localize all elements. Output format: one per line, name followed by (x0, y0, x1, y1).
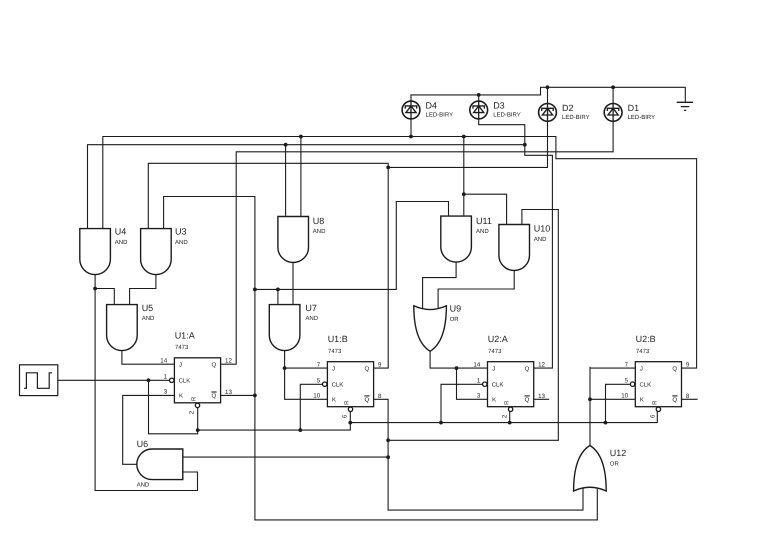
svg-text:LED-BIRY: LED-BIRY (562, 114, 590, 121)
svg-text:7473: 7473 (328, 348, 342, 355)
svg-text:U11: U11 (476, 216, 492, 226)
svg-text:7: 7 (317, 361, 321, 368)
svg-text:K: K (179, 393, 183, 400)
svg-text:AND: AND (142, 315, 155, 322)
svg-text:9: 9 (378, 362, 382, 369)
svg-text:2: 2 (502, 414, 509, 418)
svg-text:U3: U3 (175, 227, 187, 237)
svg-text:AND: AND (137, 481, 150, 488)
svg-text:U12: U12 (610, 448, 627, 458)
svg-text:12: 12 (225, 358, 232, 365)
svg-text:OR: OR (610, 461, 620, 468)
svg-text:OR: OR (450, 316, 460, 323)
svg-text:U10: U10 (534, 224, 551, 234)
svg-text:10: 10 (621, 393, 628, 400)
svg-text:K: K (640, 397, 644, 404)
svg-text:J: J (179, 362, 182, 369)
svg-text:5: 5 (625, 378, 629, 385)
svg-text:14: 14 (160, 357, 167, 364)
svg-text:3: 3 (477, 393, 481, 400)
svg-text:U9: U9 (450, 304, 462, 314)
svg-text:D4: D4 (426, 101, 438, 111)
svg-text:Q: Q (672, 365, 677, 372)
svg-text:R: R (191, 396, 198, 401)
svg-text:14: 14 (473, 361, 480, 368)
svg-text:K: K (492, 397, 496, 404)
svg-text:U7: U7 (305, 303, 317, 313)
svg-text:LED-BIRY: LED-BIRY (493, 112, 521, 119)
svg-text:7473: 7473 (175, 344, 189, 351)
svg-text:R: R (344, 400, 351, 405)
svg-text:AND: AND (313, 228, 326, 235)
svg-text:12: 12 (538, 362, 545, 369)
svg-text:Q: Q (212, 362, 217, 369)
svg-text:9: 9 (686, 362, 690, 369)
svg-text:13: 13 (225, 389, 232, 396)
svg-text:Q: Q (525, 365, 530, 372)
svg-text:Q: Q (212, 393, 217, 400)
svg-text:U1:B: U1:B (328, 334, 348, 344)
svg-text:U2:B: U2:B (636, 334, 656, 344)
svg-text:10: 10 (313, 393, 320, 400)
svg-text:5: 5 (317, 378, 321, 385)
svg-text:CLK: CLK (640, 382, 652, 389)
svg-text:AND: AND (115, 239, 128, 246)
svg-text:AND: AND (175, 239, 188, 246)
svg-text:1: 1 (477, 378, 481, 385)
svg-text:U6: U6 (137, 439, 149, 449)
svg-text:Q: Q (365, 365, 370, 372)
svg-text:K: K (332, 397, 336, 404)
svg-text:3: 3 (164, 389, 168, 396)
svg-text:D2: D2 (562, 103, 574, 113)
svg-text:AND: AND (534, 236, 547, 243)
svg-text:AND: AND (305, 315, 318, 322)
svg-text:J: J (332, 365, 335, 372)
svg-text:7473: 7473 (488, 348, 502, 355)
svg-text:U5: U5 (142, 303, 154, 313)
svg-text:Q: Q (672, 397, 677, 404)
svg-text:Q: Q (525, 397, 530, 404)
svg-text:7473: 7473 (636, 348, 650, 355)
svg-text:8: 8 (378, 393, 382, 400)
svg-text:U1:A: U1:A (175, 330, 195, 340)
svg-text:7: 7 (625, 361, 629, 368)
svg-text:U8: U8 (313, 216, 325, 226)
svg-text:CLK: CLK (332, 382, 344, 389)
svg-text:J: J (640, 365, 643, 372)
svg-text:LED-BIRY: LED-BIRY (628, 114, 656, 121)
svg-text:U2:A: U2:A (488, 334, 508, 344)
svg-text:CLK: CLK (179, 378, 191, 385)
svg-text:R: R (504, 400, 511, 405)
svg-text:1: 1 (164, 374, 168, 381)
svg-text:8: 8 (686, 393, 690, 400)
svg-text:6: 6 (650, 414, 657, 418)
svg-text:AND: AND (476, 228, 489, 235)
svg-text:J: J (492, 365, 495, 372)
svg-text:D1: D1 (628, 103, 640, 113)
svg-text:D3: D3 (493, 101, 505, 111)
svg-text:Q: Q (365, 397, 370, 404)
svg-text:U4: U4 (115, 227, 127, 237)
svg-text:R: R (652, 400, 659, 405)
svg-text:CLK: CLK (492, 382, 504, 389)
svg-text:13: 13 (538, 393, 545, 400)
svg-text:6: 6 (342, 414, 349, 418)
svg-text:2: 2 (189, 410, 196, 414)
svg-text:LED-BIRY: LED-BIRY (426, 112, 454, 119)
